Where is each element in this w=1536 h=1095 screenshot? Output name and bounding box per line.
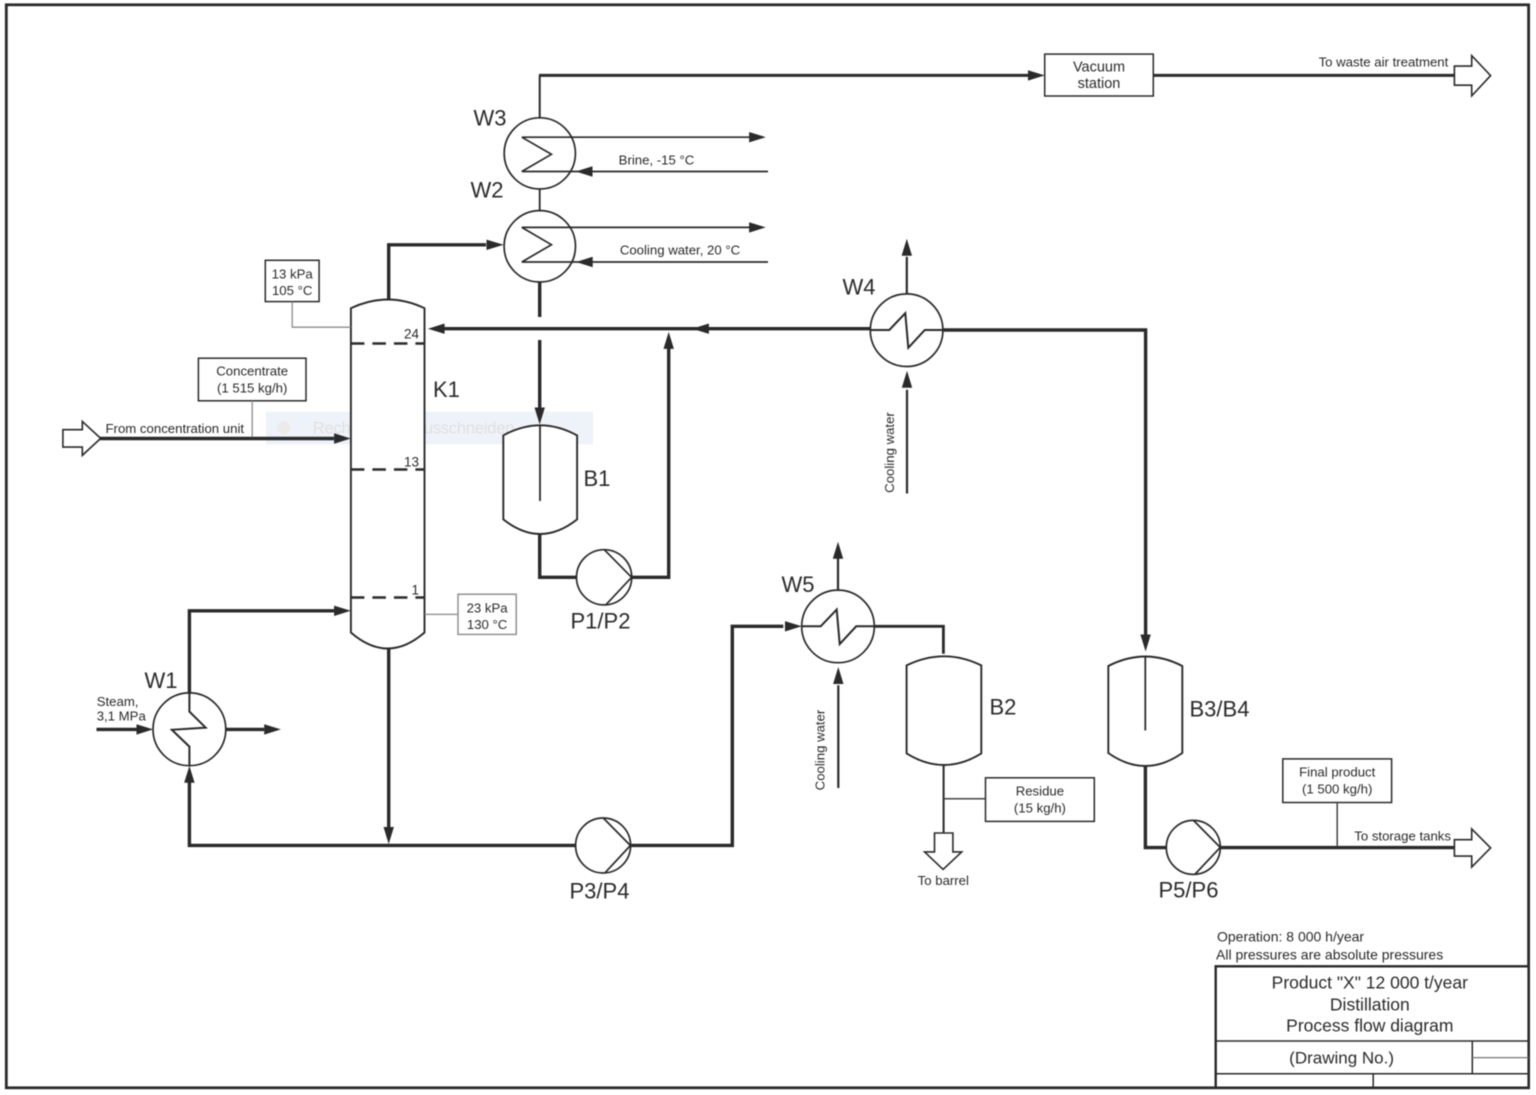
leader: residue box xyxy=(944,798,986,800)
concentrate label box xyxy=(198,358,306,401)
23 kPa 130 C label box xyxy=(458,594,516,634)
tray 24 dashed line xyxy=(351,342,425,345)
13 kPa 105 C label box xyxy=(265,260,319,301)
svg-text:105 °C: 105 °C xyxy=(272,283,313,298)
svg-text:130 °C: 130 °C xyxy=(467,617,508,632)
final product label box xyxy=(1283,759,1392,803)
wire: feed line into column xyxy=(100,437,334,440)
svg-text:P1/P2: P1/P2 xyxy=(571,609,631,634)
wire: B3/B4 drain to P5/P6 xyxy=(1145,766,1166,848)
heat exchanger W3 xyxy=(504,118,575,189)
svg-text:Cooling water, 20 °C: Cooling water, 20 °C xyxy=(620,242,741,257)
wire: W2 condensate down to B1 (crossing gap) xyxy=(538,282,541,317)
svg-text:Final product: Final product xyxy=(1299,764,1376,779)
wire: reflux/recycle header into column xyxy=(428,324,445,334)
column K1 xyxy=(351,300,425,649)
wire: cooling water out (W2 top tube) xyxy=(522,226,750,228)
residue label box xyxy=(986,778,1095,822)
svg-text:B3/B4: B3/B4 xyxy=(1190,697,1250,722)
svg-text:Residue: Residue xyxy=(1016,783,1064,798)
vessel B1 xyxy=(503,425,577,534)
svg-text:W5: W5 xyxy=(782,572,815,597)
wire: P3/P4 discharge to W5 xyxy=(630,626,783,845)
svg-text:Process flow diagram: Process flow diagram xyxy=(1286,1016,1453,1036)
heat exchanger W5 xyxy=(802,590,875,663)
leader: concentrate box xyxy=(251,401,253,437)
tray 1 dashed line xyxy=(351,596,425,599)
wire: W5 outlet to B2 xyxy=(874,626,943,654)
wire: W3-W2 connector xyxy=(539,189,541,211)
title block xyxy=(1216,966,1529,1087)
leader: final product box xyxy=(1336,803,1338,847)
svg-text:P5/P6: P5/P6 xyxy=(1159,878,1219,903)
wire: W4 outlet to B3/B4 xyxy=(943,330,1146,635)
offpage arrow: from concentration unit xyxy=(63,421,101,455)
wire: column overhead vapor to W2 xyxy=(389,245,486,301)
wire: vacuum header xyxy=(539,74,1029,77)
svg-text:W3: W3 xyxy=(474,106,507,131)
svg-text:W2: W2 xyxy=(471,178,504,203)
flow arrow on header xyxy=(692,324,709,334)
wire: W3 top to vacuum line xyxy=(539,75,541,117)
svg-text:23 kPa: 23 kPa xyxy=(467,600,509,615)
svg-text:1: 1 xyxy=(411,583,419,598)
wire: bottoms run to W1 riser xyxy=(189,781,575,845)
offpage arrow: to barrel xyxy=(925,833,962,869)
offpage arrow: storage tanks xyxy=(1454,829,1490,867)
tray 13 dashed line xyxy=(351,468,425,471)
wire: B2 drain xyxy=(943,765,945,833)
svg-text:24: 24 xyxy=(404,327,420,342)
heat exchanger W4 xyxy=(870,294,943,367)
watermark band (snip overlay) xyxy=(266,412,593,445)
wire: brine out (W3 top tube) xyxy=(522,136,750,138)
svg-text:To waste air treatment: To waste air treatment xyxy=(1319,54,1449,69)
leader: 13 kPa box xyxy=(292,302,351,328)
svg-text:All pressures are absolute pre: All pressures are absolute pressures xyxy=(1216,946,1443,962)
wire: column bottoms down xyxy=(387,648,390,828)
svg-text:Steam,: Steam, xyxy=(97,694,139,709)
wire: steam in xyxy=(97,728,138,731)
wire: B1 drain to P1/P2 xyxy=(540,534,577,577)
svg-text:W1: W1 xyxy=(145,668,178,693)
wire: vacuum station to waste air xyxy=(1153,74,1454,77)
svg-text:(1 500 kg/h): (1 500 kg/h) xyxy=(1302,782,1372,797)
wire: product line to storage xyxy=(1220,846,1454,849)
svg-text:13 kPa: 13 kPa xyxy=(272,267,314,282)
heat exchanger W2 xyxy=(504,211,575,282)
wire: W1 outlet up to column xyxy=(189,611,334,693)
svg-text:To barrel: To barrel xyxy=(918,873,969,888)
svg-text:Cooling water: Cooling water xyxy=(813,709,828,790)
pump P5/P6 xyxy=(1166,820,1220,874)
svg-text:Operation: 8 000 h/year: Operation: 8 000 h/year xyxy=(1217,928,1364,944)
svg-text:Cooling water: Cooling water xyxy=(882,412,897,493)
svg-text:From concentration unit: From concentration unit xyxy=(106,421,245,436)
svg-text:Vacuum: Vacuum xyxy=(1073,60,1125,76)
wire: W4 vapor vent xyxy=(906,257,908,294)
svg-text:B2: B2 xyxy=(990,695,1017,720)
heat exchanger W1 xyxy=(153,693,226,766)
leader: 23 kPa box xyxy=(425,613,458,615)
svg-text:Concentrate: Concentrate xyxy=(216,363,288,378)
offpage arrow: waste air xyxy=(1454,56,1490,96)
svg-text:13: 13 xyxy=(404,455,419,470)
wire: W5 cooling water in xyxy=(837,685,839,788)
svg-text:W4: W4 xyxy=(843,275,876,300)
vacuum station box xyxy=(1045,54,1154,96)
svg-text:P3/P4: P3/P4 xyxy=(570,879,630,904)
svg-text:Brine, -15 °C: Brine, -15 °C xyxy=(619,152,695,167)
pump P1/P2 xyxy=(577,550,632,605)
pump P3/P4 xyxy=(576,818,631,873)
wire: W4 cooling water in xyxy=(906,390,908,494)
wire: W5 vent xyxy=(837,558,839,590)
wire: P1/P2 discharge riser xyxy=(632,348,669,577)
svg-text:station: station xyxy=(1078,76,1121,92)
svg-text:(Drawing No.): (Drawing No.) xyxy=(1289,1048,1394,1067)
svg-text:Distillation: Distillation xyxy=(1330,995,1410,1015)
wire: steam condensate out xyxy=(226,728,264,731)
svg-text:3,1 MPa: 3,1 MPa xyxy=(97,709,147,724)
wire: cooling water in (W2 bottom tube) xyxy=(522,261,768,263)
wire: brine in (W3 bottom tube) xyxy=(522,171,768,173)
svg-text:Product "X" 12 000 t/year: Product "X" 12 000 t/year xyxy=(1272,972,1468,992)
svg-text:(1 515 kg/h): (1 515 kg/h) xyxy=(217,381,287,396)
vessel B2 xyxy=(907,656,982,765)
svg-text:K1: K1 xyxy=(433,377,460,402)
svg-text:B1: B1 xyxy=(584,466,611,491)
svg-text:(15 kg/h): (15 kg/h) xyxy=(1014,801,1066,816)
vessel B3/B4 xyxy=(1108,657,1182,767)
svg-text:To storage tanks: To storage tanks xyxy=(1354,829,1451,844)
